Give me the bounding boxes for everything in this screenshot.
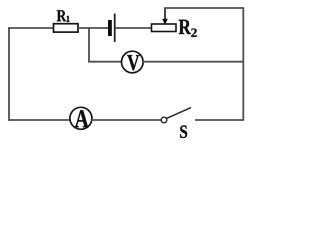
battery negative plate (short thick) (108, 20, 112, 36)
wire: R1 to battery (78, 27, 109, 29)
wire: switch to bottom-right corner (195, 119, 244, 121)
switch S pivot contact (161, 117, 167, 123)
wire: slider to top-right corner (164, 7, 243, 9)
label S (180, 125, 187, 138)
voltmeter V (122, 51, 144, 73)
wire: voltmeter to right side (143, 61, 243, 63)
wire: right vertical side (242, 7, 244, 121)
wire: left vertical side (8, 27, 10, 121)
wire: bottom-left horizontal to ammeter (8, 119, 70, 121)
wire: battery to rheostat R2 (116, 27, 153, 29)
wire: ammeter to switch (92, 119, 162, 121)
wire: top-left horizontal to R1 (8, 27, 54, 29)
label R2 (179, 20, 191, 34)
ammeter A (70, 107, 92, 129)
label V inside voltmeter (127, 55, 139, 70)
rheostat R2 body (152, 24, 177, 32)
wire: voltmeter branch left horizontal (88, 61, 122, 63)
label R1 (57, 10, 67, 21)
switch S blade (open) (166, 108, 191, 119)
wire: voltmeter branch vertical drop (88, 27, 90, 62)
rheostat R2 slider arrow (164, 8, 166, 20)
resistor R1 (54, 24, 79, 32)
label A inside ammeter (75, 110, 89, 127)
battery positive plate (long thin) (114, 14, 116, 43)
